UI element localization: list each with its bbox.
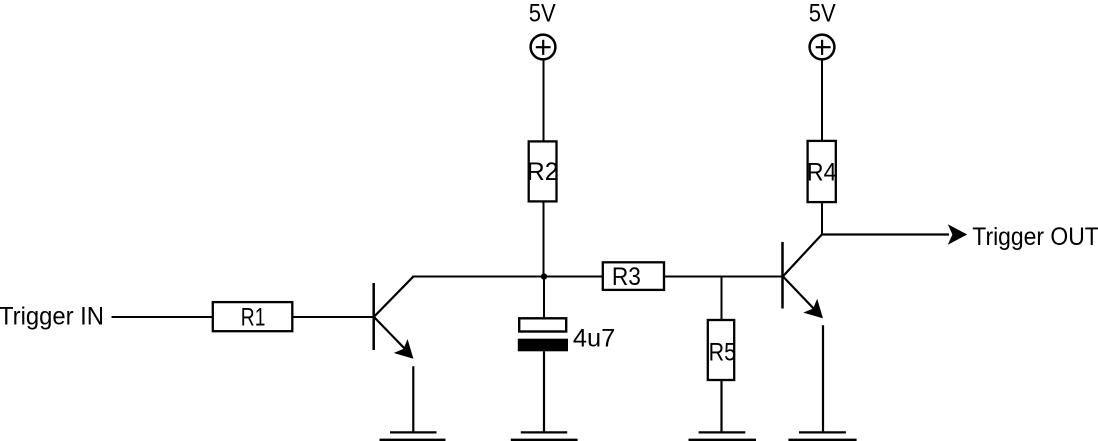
resistor R5 [708, 320, 736, 380]
wire Trigger IN to R1 [112, 316, 214, 318]
wire R2 to node [543, 202, 545, 277]
wire Q2 emitter to ground [822, 325, 824, 432]
transistor Q1 [374, 277, 414, 359]
svg-text:R3: R3 [612, 263, 641, 291]
ground Q2 emitter [788, 432, 856, 440]
wire node to capacitor C1 [543, 277, 545, 319]
capacitor C1 [518, 318, 568, 351]
svg-text:R5: R5 [709, 338, 736, 366]
power supply +5V right [810, 35, 835, 60]
svg-text:R1: R1 [241, 303, 266, 331]
wire Q2 collector to Trigger OUT [821, 233, 949, 235]
svg-text:R2: R2 [527, 158, 559, 186]
node junction dot [541, 273, 547, 279]
wire node to R5 [721, 277, 723, 321]
wire Q1 collector bus to R3 [412, 276, 603, 278]
wire R1 to Q1 base [292, 316, 372, 318]
power supply +5V left [531, 35, 556, 60]
resistor R2 [527, 141, 559, 201]
resistor R1 [213, 302, 292, 331]
wire R5 to ground [720, 380, 722, 433]
svg-text:4u7: 4u7 [573, 324, 615, 352]
resistor R3 [603, 262, 664, 291]
wire R3 to Q2 base [664, 276, 782, 278]
resistor R4 [807, 141, 837, 202]
svg-text:5V: 5V [809, 0, 836, 28]
ground capacitor C1 [511, 432, 578, 440]
wire 5V right to R4 [821, 59, 823, 141]
svg-text:Trigger IN: Trigger IN [0, 303, 104, 331]
wire 5V left to R2 [543, 59, 545, 141]
wire capacitor C1 to ground [543, 351, 545, 432]
svg-text:5V: 5V [529, 0, 556, 28]
wire Q1 emitter to ground [412, 366, 414, 432]
wire R4 to Q2 collector [821, 203, 823, 236]
ground R5 [689, 432, 757, 440]
svg-text:Trigger OUT: Trigger OUT [972, 223, 1098, 251]
arrow Trigger OUT [948, 224, 967, 245]
ground Q1 emitter [380, 432, 446, 440]
transistor Q2 [783, 234, 824, 318]
svg-text:R4: R4 [807, 158, 837, 186]
